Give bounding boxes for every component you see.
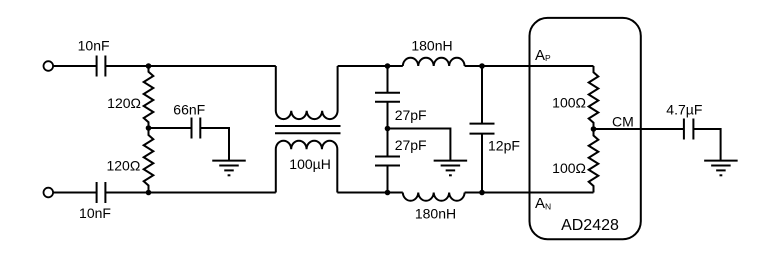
svg-text:120Ω: 120Ω bbox=[107, 95, 141, 111]
junction: top rail / C6 bbox=[479, 63, 485, 69]
transformer T1 core bbox=[275, 126, 341, 133]
input terminal J2 (bottom) bbox=[44, 188, 54, 198]
svg-text:27pF: 27pF bbox=[395, 137, 427, 153]
wire: mid node to C3 bbox=[149, 127, 192, 129]
svg-text:100Ω: 100Ω bbox=[552, 160, 586, 176]
wire: mid junction to ground bbox=[388, 129, 451, 161]
wire: C4 to mid junction bbox=[387, 102, 389, 157]
svg-text:AD2428: AD2428 bbox=[561, 217, 619, 234]
capacitor C3 66nF bbox=[192, 118, 201, 139]
svg-text:10nF: 10nF bbox=[78, 38, 110, 54]
inductor L1 180nH (top) bbox=[403, 58, 465, 66]
wire: J2 to C2 bbox=[53, 192, 97, 194]
capacitor C2 10nF (bottom input) bbox=[97, 182, 106, 203]
ground GND2 bbox=[434, 161, 468, 176]
svg-text:CM: CM bbox=[612, 113, 634, 129]
junction: R1/R2/C3 node bbox=[146, 125, 152, 131]
resistor R3 100ohm (upper) bbox=[589, 66, 599, 129]
IC U1 AD2428 body bbox=[530, 18, 641, 239]
junction: bottom rail / C6 bbox=[479, 190, 485, 196]
junction: CM node bbox=[591, 126, 597, 132]
junction: bottom rail / C5 bbox=[385, 190, 391, 196]
wire: L1 to A_P pin bbox=[465, 65, 594, 67]
wire: top rail into C6 bbox=[481, 66, 483, 124]
wire: L2 to A_N pin bbox=[465, 192, 594, 194]
junction: top rail / R1 bbox=[146, 63, 152, 69]
wire: J1 to C1 bbox=[53, 65, 97, 67]
capacitor C7 4.7uF bbox=[684, 119, 694, 140]
svg-text:27pF: 27pF bbox=[395, 107, 427, 123]
svg-text:180nH: 180nH bbox=[411, 37, 452, 53]
wire: C2 to transformer T1 bottom bbox=[105, 192, 275, 194]
transformer T1 secondary winding (bottom) bbox=[276, 141, 338, 193]
junction: top rail / C4 bbox=[385, 63, 391, 69]
inductor L2 180nH (bottom) bbox=[403, 193, 465, 201]
ground GND3 bbox=[704, 161, 738, 176]
wire: C5 to bottom rail bbox=[387, 166, 389, 193]
svg-text:100Ω: 100Ω bbox=[552, 94, 586, 110]
wire: C6 to bottom rail bbox=[481, 134, 483, 193]
svg-text:66nF: 66nF bbox=[173, 101, 205, 117]
wire: C1 to transformer T1 top (node P-top) bbox=[105, 65, 275, 67]
input terminal J1 (top) bbox=[44, 61, 54, 71]
svg-text:120Ω: 120Ω bbox=[106, 157, 140, 173]
resistor R1 120ohm bbox=[144, 66, 154, 128]
junction: between C4 and C5 bbox=[385, 126, 391, 132]
capacitor C4 27pF (upper) bbox=[375, 93, 400, 102]
wire: T1 top to node A bbox=[338, 65, 403, 67]
capacitor C6 12pF bbox=[470, 124, 495, 134]
wire: C7 to ground bbox=[693, 129, 720, 161]
wire: top rail into C4 bbox=[387, 66, 389, 93]
ground GND1 bbox=[212, 161, 246, 176]
resistor R2 120ohm bbox=[144, 128, 154, 193]
wire: C3 to ground bbox=[200, 128, 229, 161]
capacitor C5 27pF (lower) bbox=[375, 157, 400, 166]
svg-text:180nH: 180nH bbox=[415, 206, 456, 222]
svg-text:4.7µF: 4.7µF bbox=[666, 102, 702, 118]
svg-text:AP: AP bbox=[535, 47, 551, 64]
wire: CM node to C7 bbox=[594, 128, 684, 130]
junction: bottom rail / R2 bbox=[146, 190, 152, 196]
svg-text:12pF: 12pF bbox=[488, 138, 520, 154]
svg-text:10nF: 10nF bbox=[79, 205, 111, 221]
capacitor C1 10nF (top input) bbox=[97, 56, 106, 77]
svg-text:AN: AN bbox=[535, 195, 551, 212]
transformer T1 primary winding (top) bbox=[276, 66, 338, 119]
resistor R4 100ohm (lower) bbox=[589, 129, 599, 193]
wire: T1 bottom to bottom inductor bbox=[337, 192, 403, 194]
svg-text:100µH: 100µH bbox=[289, 156, 331, 172]
